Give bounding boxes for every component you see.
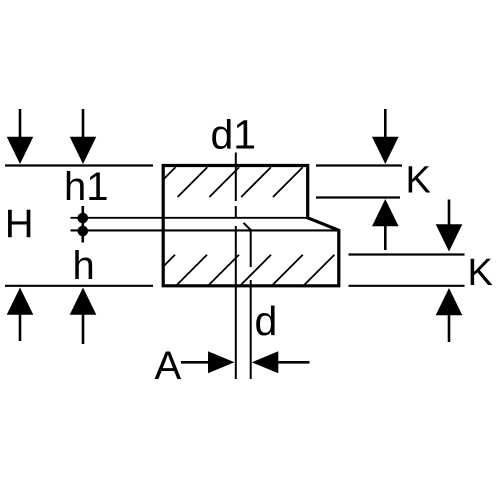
right extension line R3 (second K upper) <box>349 253 465 255</box>
svg-text:h1: h1 <box>64 165 109 209</box>
A dimension right-pointing arrow <box>181 351 235 373</box>
hatching upper band <box>163 167 302 197</box>
h bottom arrow (up) <box>70 288 97 345</box>
right extension line R1 (top of socket) <box>316 164 402 166</box>
svg-text:K: K <box>468 252 493 294</box>
right extension line R2 (first K lower) <box>316 196 400 198</box>
inner line A (upper seal line) <box>71 217 308 219</box>
centerline (d1 axis) <box>235 153 237 380</box>
H top arrow (down) <box>7 109 34 164</box>
hatching lower band <box>163 255 334 286</box>
svg-text:H: H <box>5 202 34 246</box>
left extension line bottom (H/h datum) <box>5 285 153 287</box>
A dimension left-pointing arrow <box>252 351 310 373</box>
svg-text:d1: d1 <box>211 112 257 158</box>
K1 top arrow (down) <box>372 109 399 164</box>
h1 top arrow (down) <box>70 109 97 164</box>
left extension line top (H/h1 datum) <box>5 164 153 166</box>
svg-text:h: h <box>73 244 95 288</box>
H bottom arrow (up) <box>7 288 34 342</box>
K2 bottom arrow (up) <box>436 288 463 342</box>
d dimension line with jog <box>244 223 251 379</box>
svg-text:d: d <box>255 298 278 344</box>
K1 bottom arrow (up) <box>372 199 399 250</box>
K2 top arrow (down) <box>436 200 463 252</box>
svg-text:A: A <box>155 344 182 388</box>
fitting body outline <box>163 166 339 286</box>
h1/h reference dots with vertical connector <box>78 206 89 243</box>
right extension line R4 (second K lower / bottom level) <box>349 285 465 287</box>
svg-text:K: K <box>406 160 431 202</box>
inner line B (lower seal line) <box>71 229 339 231</box>
